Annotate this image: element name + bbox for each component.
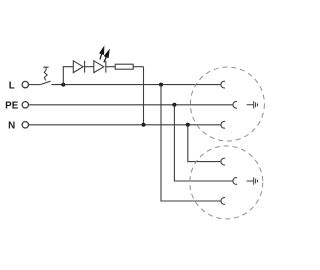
wire PE bus (29, 104, 233, 106)
wire V2 to resistor (106, 66, 115, 68)
socket X1 earth contact (247, 101, 258, 108)
wire PE to socket X2 middle contact (174, 105, 233, 181)
wire branch up from L (63, 67, 73, 85)
svg-text:PE: PE (5, 101, 19, 112)
svg-text:N: N (8, 120, 15, 131)
terminal N (22, 122, 28, 128)
diode V1 (73, 61, 84, 73)
wire drop resistor to N (143, 67, 145, 125)
wire N bus (29, 124, 221, 126)
wire resistor to drop (133, 66, 143, 68)
socket outlet X1 (dashed circle) (190, 67, 264, 141)
resistor R1 (115, 64, 133, 69)
junction L-branch (61, 83, 65, 87)
socket X1 contact middle (233, 101, 237, 108)
wire L bus (switch to socket X1 top contact) (51, 84, 221, 86)
switch S1 actuator (43, 67, 48, 80)
junction N drop (186, 123, 190, 127)
wire V1 to V2 (85, 66, 94, 68)
wire L to socket X2 bottom contact (161, 85, 221, 201)
svg-text:L: L (9, 81, 15, 92)
socket X1 contact top (221, 81, 225, 88)
socket outlet X2 (dashed circle) (190, 146, 263, 219)
terminal PE (22, 102, 28, 108)
LED V2 emission arrows (100, 47, 110, 63)
junction L drop (159, 83, 163, 87)
LED V2 (94, 61, 106, 73)
socket X2 earth contact (247, 177, 258, 184)
junction PE drop (172, 103, 176, 107)
junction branch-N (142, 123, 146, 127)
socket X2 contact middle (233, 178, 237, 185)
terminal L (22, 81, 28, 87)
wire L terminal to switch (29, 84, 41, 86)
wire N to socket X2 top contact (188, 125, 221, 162)
socket X1 contact bottom (221, 121, 225, 128)
socket X2 contact top (221, 158, 225, 165)
switch S1 blade (40, 81, 50, 84)
socket X2 contact bottom (221, 198, 225, 205)
